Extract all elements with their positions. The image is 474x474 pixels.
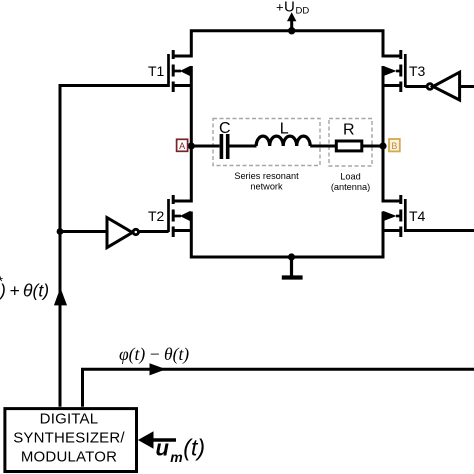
wire top rail with left and right drops <box>191 31 383 58</box>
wire +UDD stub <box>290 18 293 31</box>
arrowhead right on phi line <box>150 363 167 375</box>
junction dot UDD on rail <box>288 27 295 34</box>
transistor T2 <box>148 195 191 237</box>
node B <box>379 139 399 151</box>
svg-text:u: u <box>156 436 170 461</box>
svg-text:m: m <box>170 449 182 465</box>
transistor T4 <box>383 195 426 237</box>
node A <box>177 139 195 151</box>
wire left bridge T1 source to node A to T2 drain <box>190 66 193 203</box>
svg-text:Load: Load <box>340 172 360 182</box>
transistor T1 <box>148 50 191 92</box>
wire bottom rail with T2 and T4 source drops <box>191 212 383 258</box>
wire left gate bus from T1 gate down to box <box>60 86 169 407</box>
wire right bridge T3 source to node B to T4 drain <box>382 66 385 203</box>
svg-text:(t): (t) <box>183 435 205 461</box>
svg-text:) + θ(t): ) + θ(t) <box>0 281 49 301</box>
svg-text:φ(t) − θ(t): φ(t) − θ(t) <box>119 344 189 364</box>
svg-text:MODULATOR: MODULATOR <box>21 448 117 465</box>
label um(t) <box>156 435 206 466</box>
+UDD arrow up <box>287 12 296 21</box>
wire node A to capacitor <box>191 145 219 148</box>
label phase signal theta cut at left edge <box>0 273 49 301</box>
svg-text:Series resonant: Series resonant <box>234 171 299 181</box>
svg-text:T3: T3 <box>409 63 426 79</box>
wire T4 gate to right edge <box>405 229 474 232</box>
wire resistor to node B <box>363 145 383 148</box>
supply label +UDD <box>276 0 309 17</box>
svg-text:U: U <box>284 0 295 16</box>
svg-text:A: A <box>179 141 185 151</box>
inverter U2 driving T2 gate <box>107 218 169 248</box>
svg-text:+: + <box>276 0 284 15</box>
junction dot ground on bottom rail <box>288 253 295 260</box>
ground <box>282 257 303 278</box>
svg-text:DIGITAL: DIGITAL <box>40 411 99 428</box>
svg-text:SYNTHESIZER/: SYNTHESIZER/ <box>13 430 125 447</box>
svg-text:T4: T4 <box>409 208 426 224</box>
resistor R <box>336 141 362 151</box>
arrowhead up on left gate bus <box>54 288 67 306</box>
wire bus to inverter U2 input <box>60 230 107 233</box>
transistor T3 <box>383 50 426 92</box>
wire phi(t)-theta(t) output line <box>83 369 474 407</box>
inverter U3 driving T3 gate <box>405 72 474 100</box>
svg-text:B: B <box>391 141 397 151</box>
svg-text:R: R <box>343 122 355 139</box>
svg-text:T1: T1 <box>148 63 165 79</box>
svg-text:T2: T2 <box>148 208 165 224</box>
svg-text:(antenna): (antenna) <box>331 182 370 192</box>
arrow um(t) into box <box>138 431 176 449</box>
block digital synthesizer modulator <box>5 409 137 472</box>
dashed box series resonant network <box>213 119 320 166</box>
inductor L <box>256 136 310 146</box>
wire capacitor to inductor <box>230 145 257 148</box>
dashed box load <box>329 119 372 167</box>
svg-text:network: network <box>250 182 283 192</box>
svg-text:C: C <box>219 120 231 137</box>
svg-text:DD: DD <box>296 6 310 17</box>
wire inductor to resistor <box>310 145 336 148</box>
junction dot gate bus to inverter <box>57 228 64 235</box>
svg-text:L: L <box>280 121 289 138</box>
capacitor C plates <box>221 134 227 159</box>
